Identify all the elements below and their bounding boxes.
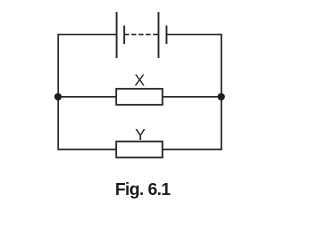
battery B1: cell 1 long plate	[116, 12, 118, 58]
svg-text:Y: Y	[135, 127, 146, 144]
battery B1: cell 1 short plate	[123, 26, 125, 45]
wire: bottom branch left segment	[57, 148, 116, 150]
svg-text:X: X	[134, 73, 145, 90]
svg-text:Fig. 6.1: Fig. 6.1	[115, 179, 171, 199]
wire: dashed link between cells	[124, 34, 158, 36]
node: right junction dot	[218, 93, 225, 100]
wire: middle branch right segment	[163, 96, 223, 98]
wire: left vertical conductor	[57, 35, 59, 150]
wire: right vertical conductor	[220, 35, 222, 150]
node: left junction dot	[54, 93, 61, 100]
wire: top left segment to battery	[57, 34, 116, 36]
battery B1: cell 2 long plate	[158, 12, 160, 58]
wire: top right segment from battery	[167, 34, 223, 36]
wire: bottom branch right segment	[163, 148, 223, 150]
resistor Y body	[116, 142, 162, 158]
battery B1: cell 2 short plate	[166, 26, 168, 45]
resistor X body	[116, 89, 162, 105]
wire: middle branch left segment	[57, 96, 116, 98]
